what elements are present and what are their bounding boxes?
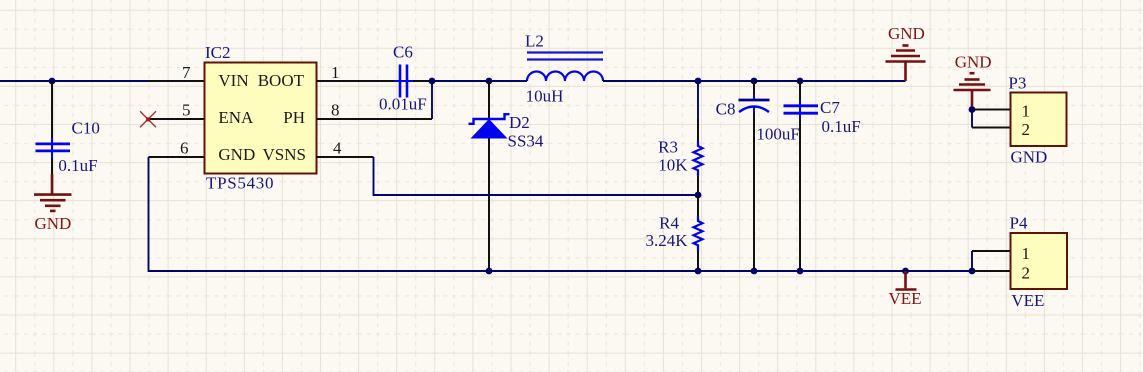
node junction C8 top [751,78,758,85]
capacitor C8 polarized [716,95,800,144]
svg-text:C8: C8 [716,100,736,119]
node junction R4 bottom [695,268,702,275]
node junction VEE tap [902,268,909,275]
svg-text:IC2: IC2 [205,43,231,62]
connector P3 [1008,74,1066,167]
wire R4 upper lead [697,195,699,216]
resistor R4 [645,214,702,252]
svg-text:C6: C6 [393,43,413,62]
node junction C7 top [797,78,804,85]
svg-text:GND: GND [888,24,925,43]
diode D2 SS34 [469,113,544,151]
wire D2 vertical [488,81,490,271]
wire P3 pin1 [972,109,1011,111]
svg-text:ENA: ENA [218,108,254,127]
node junction R3 top [695,78,702,85]
svg-text:1: 1 [1022,244,1031,263]
svg-text:C10: C10 [72,119,100,138]
pin 8 PH [317,118,433,120]
svg-text:C7: C7 [820,98,840,117]
node junction D2 top [486,78,493,85]
svg-text:0.1uF: 0.1uF [58,156,97,175]
svg-text:6: 6 [180,139,189,158]
node junction P4 [969,268,976,275]
ground GND for P3 [954,53,992,110]
pin 1 BOOT [317,80,396,82]
svg-text:GND: GND [1011,148,1048,167]
wire D2 to L2 [489,80,527,82]
capacitor C6 [379,43,427,114]
pin 6 GND [149,156,205,158]
connector P4 [1010,214,1068,311]
wire rail to D2 [432,80,489,82]
svg-text:VSNS: VSNS [263,145,306,164]
svg-text:PH: PH [283,108,305,127]
wire C7 lower lead [799,120,801,272]
svg-text:0.01uF: 0.01uF [379,95,427,114]
pin 7 VIN [149,80,205,82]
inductor L2 [525,32,603,106]
svg-text:0.1uF: 0.1uF [822,117,861,136]
ground GND top rail [886,24,926,81]
svg-text:1: 1 [331,63,340,82]
resistor R3 [658,138,702,177]
node junction C10 tap [49,78,56,85]
svg-text:R4: R4 [659,214,679,233]
wire C6 right lead [413,80,432,82]
svg-text:P3: P3 [1008,74,1026,93]
wire C7 upper lead [799,81,801,101]
no connect X on ENA [140,111,156,127]
wire C10 lower lead [51,158,53,175]
svg-text:100uF: 100uF [756,125,799,144]
svg-text:10K: 10K [658,156,688,175]
svg-text:VEE: VEE [1011,291,1044,310]
node junction feedback [695,192,702,199]
wire P4 pin2 [972,270,1011,272]
svg-text:5: 5 [182,101,191,120]
svg-text:TPS5430: TPS5430 [206,174,274,193]
svg-text:7: 7 [182,63,191,82]
wire P4 vertical [971,251,973,271]
node junction C8 bottom [751,268,758,275]
power VEE symbol [889,271,922,308]
svg-text:GND: GND [35,214,72,233]
svg-text:10uH: 10uH [526,87,564,106]
svg-text:1: 1 [1022,102,1031,121]
svg-text:VIN: VIN [218,71,248,90]
svg-text:2: 2 [1022,264,1031,283]
svg-text:SS34: SS34 [508,132,544,151]
svg-text:GND: GND [218,145,255,164]
wire C8 lower lead [753,113,755,272]
svg-text:8: 8 [331,101,340,120]
wire bottom rail [149,157,973,271]
svg-text:BOOT: BOOT [258,71,305,90]
svg-text:D2: D2 [509,113,530,132]
node junction at C6 output [429,78,436,85]
wire top rail left [0,80,149,82]
pin 5 ENA [149,118,205,120]
capacitor C7 [784,98,861,136]
wire R3 lower lead [697,176,699,195]
wire L2 to GND rail [603,80,906,82]
op-amp U1 : IC2 TPS5430 body [205,63,317,174]
wire P3 vertical [971,110,973,128]
svg-text:VEE: VEE [889,289,922,308]
svg-text:3.24K: 3.24K [645,231,688,250]
svg-text:GND: GND [955,53,992,72]
wire VSNS feedback horizontal [374,157,699,195]
svg-text:4: 4 [333,139,342,158]
node junction P3 [969,106,976,113]
svg-text:2: 2 [1022,120,1031,139]
wire C10 upper lead [51,81,53,139]
pin 4 VSNS [317,156,374,158]
capacitor C10 [36,119,100,176]
wire P3 pin2 [972,127,1011,129]
wire P4 pin1 [972,250,1011,252]
wire R4 lower lead [697,251,699,271]
node junction D2 bottom [486,268,493,275]
wire BOOT to PH vertical [431,81,433,119]
node junction C7 bottom [797,268,804,275]
svg-text:L2: L2 [525,32,544,51]
svg-text:R3: R3 [658,138,678,157]
wire R3 upper lead [697,81,699,119]
ground GND below C10 [34,174,72,233]
wire C8 upper lead [753,81,755,99]
svg-text:P4: P4 [1010,214,1028,233]
